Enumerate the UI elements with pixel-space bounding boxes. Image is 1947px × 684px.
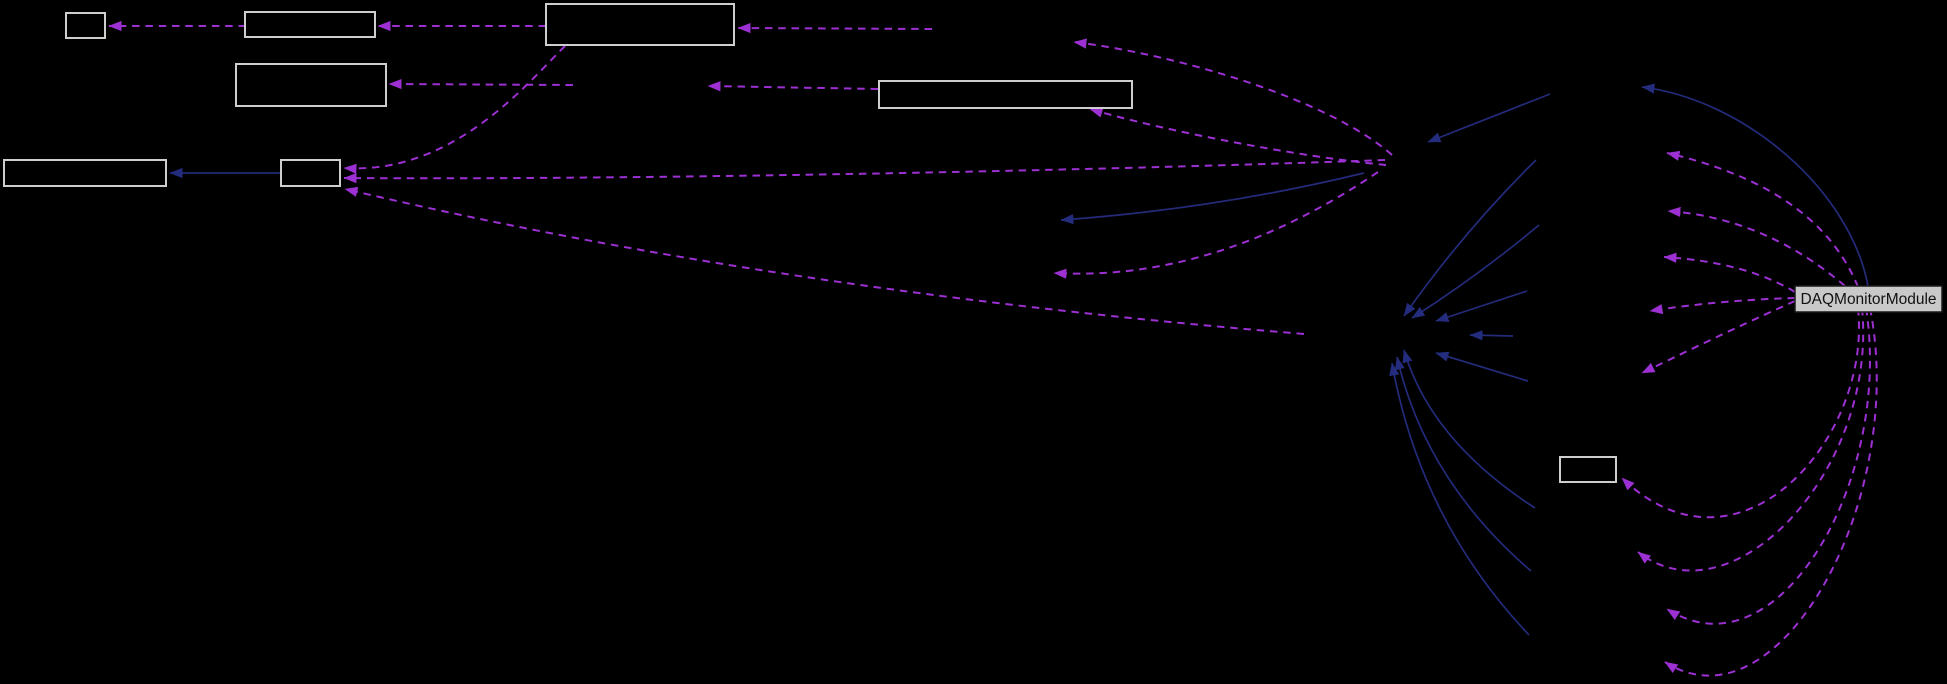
node DAQMonitorModule (highlighted gray box): [1795, 286, 1942, 312]
edge hub1 to G (dashed long horizontal): [344, 160, 1385, 178]
edge S3 to hub2 (blue line): [1436, 291, 1527, 321]
edge S4 to hub2 (blue horizontal arrow): [1470, 335, 1513, 336]
edge DAQ to I4 (dashed S-curve s4): [1665, 308, 1877, 676]
edge N2 to C (dashed): [738, 28, 932, 29]
edge DAQ to H (dashed S-curve s1): [1622, 308, 1859, 517]
edge DAQ to I3 (dashed S-curve s3): [1667, 308, 1870, 624]
edge E to N7 (dashed): [708, 86, 878, 89]
edge N5 to hub1 (blue line): [1428, 94, 1550, 142]
svg-text:DAQMonitorModule: DAQMonitorModule: [1800, 291, 1936, 308]
node F (empty box bottom-left): [4, 160, 166, 186]
edge B to A (dashed): [109, 25, 246, 27]
edge hub1 to N4 (dashed curve): [1054, 172, 1378, 274]
edge DAQ to S3 (dashed curve u3): [1664, 257, 1795, 292]
edge G to F (blue solid): [170, 172, 281, 174]
edge DAQ to S4 (dashed curve u4): [1650, 298, 1795, 311]
edge S1 to hub2 (blue curve A): [1404, 160, 1536, 316]
edge DAQ to I2 (dashed S-curve s2): [1638, 308, 1863, 571]
edge S2 to hub2 (blue curve B): [1412, 225, 1539, 318]
edge DAQ to S1 (dashed curve u1): [1667, 153, 1858, 287]
edge hub2 to G (dashed long diagonal): [345, 189, 1304, 334]
node D (empty two-line box): [236, 64, 386, 106]
edge N7 to D (dashed): [389, 84, 573, 85]
edge DAQ to S2 (dashed curve u2): [1668, 211, 1845, 286]
node E (empty wide box): [879, 81, 1132, 108]
edge hub1 to E (dashed curve): [1090, 109, 1386, 165]
edge C to B (dashed): [378, 25, 546, 27]
edge I3 to hub3 (blue arc 3): [1392, 363, 1529, 635]
edge hub1 to N2 (dashed curve): [1074, 42, 1392, 155]
edge DAQ to S5 (dashed curve u5): [1642, 301, 1795, 373]
edge I2 to hub3 (blue arc 2): [1397, 357, 1531, 571]
node G (empty small box): [281, 160, 340, 186]
node A (empty box top-left): [66, 13, 105, 38]
node C (empty two-line box): [546, 4, 734, 45]
edge I1 to hub3 (blue arc 1): [1404, 350, 1535, 508]
edge hub1 to N3 (blue curve): [1061, 173, 1364, 220]
edge C to G (dashed curve): [344, 46, 565, 168]
edge S5 to hub3 (blue line): [1436, 353, 1528, 381]
node H (empty small box right): [1560, 457, 1616, 482]
node B (empty box): [245, 12, 375, 37]
edge DAQ to N5 (blue curve): [1642, 87, 1868, 286]
